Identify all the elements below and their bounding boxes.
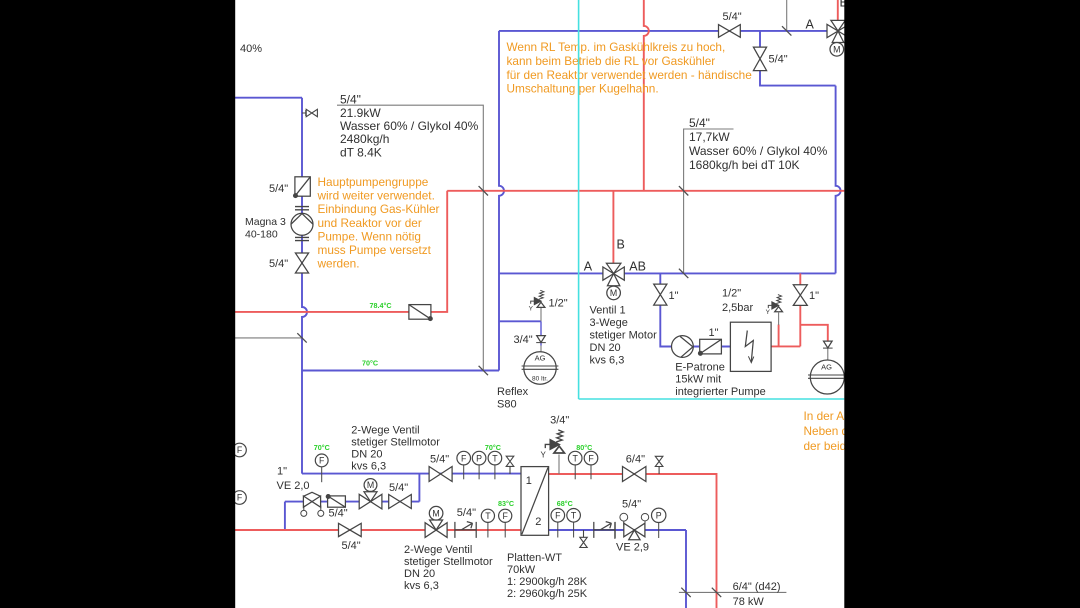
svg-text:AG: AG xyxy=(535,354,546,363)
valve 5/4 gate on top blue line x=729.4 xyxy=(719,25,741,38)
sensor T red supply x=575.2 xyxy=(574,464,576,479)
svg-text:2: 2960kg/h 25K: 2: 2960kg/h 25K xyxy=(507,588,588,600)
svg-text:F: F xyxy=(319,456,325,466)
wire blue supply top-left horizontal y=98 xyxy=(233,97,302,99)
cyan highlight box left edge xyxy=(578,0,580,399)
relief valve 3/4 above HX x=559 xyxy=(545,430,564,453)
svg-text:1: 2900kg/h 28K: 1: 2900kg/h 28K xyxy=(507,576,588,588)
svg-text:E-Patrone: E-Patrone xyxy=(675,361,725,373)
note orange Wenn RL Temp xyxy=(507,40,753,95)
valve 5/4 on blue return before HX x=440.6 xyxy=(429,467,452,482)
svg-text:F: F xyxy=(503,511,509,521)
motor cone mixing valve xyxy=(364,492,377,502)
wire blue left riser x=499 with bridge over red y=190.8 xyxy=(499,31,504,371)
wire blue 70C return y=370.5 xyxy=(302,370,499,372)
svg-text:5/4": 5/4" xyxy=(389,482,408,494)
svg-text:Platten-WT: Platten-WT xyxy=(507,552,562,564)
svg-text:2-Wege Ventil: 2-Wege Ventil xyxy=(351,424,419,436)
svg-text:Wasser 60% / Glykol 40%: Wasser 60% / Glykol 40% xyxy=(689,144,828,158)
balancing valve with drain cocks VE 2,0 row x=312.2 xyxy=(303,496,320,507)
relief drain stub gray x=778.8 xyxy=(778,312,780,325)
svg-text:5/4": 5/4" xyxy=(622,498,641,510)
wire blue drop x=419.4 to mixing row xyxy=(418,474,420,502)
sensor F red supply x=591 xyxy=(590,464,592,479)
pipe stub blue vessel stem x=541 xyxy=(540,321,542,345)
svg-text:Pumpe. Wenn nötig: Pumpe. Wenn nötig xyxy=(318,229,421,243)
valve 5/4 vertical below top junction x=760 xyxy=(753,47,766,71)
svg-text:68°C: 68°C xyxy=(557,499,573,508)
filter dot mixing row xyxy=(326,495,330,499)
break slash on leader end at blue 70C x=483.3 xyxy=(479,366,488,375)
svg-text:AG: AG xyxy=(821,363,832,372)
svg-text:M: M xyxy=(610,288,617,298)
svg-text:Reflex: Reflex xyxy=(497,386,529,398)
motor M circle mixing valve xyxy=(364,479,377,492)
vent cock on riser x=302 y=113 xyxy=(302,110,306,116)
wire red bottom supply y=530 xyxy=(233,529,521,531)
expansion vessel right membrane lines xyxy=(808,375,847,378)
motor cone bottom valve xyxy=(430,520,443,530)
filter diagonal xyxy=(295,177,310,196)
relief valve 1/2 at expansion vessel x=541 xyxy=(531,290,545,307)
cap valve 3/4 above expansion vessel xyxy=(536,336,546,343)
svg-text:80 ltr.: 80 ltr. xyxy=(532,376,548,383)
svg-text:A: A xyxy=(584,260,593,274)
wire blue main riser x=302 with bridge over red at y=312 xyxy=(302,98,307,474)
wire blue right riser x=835.6 with bridge over red y=190.8 xyxy=(836,86,841,274)
svg-text:40-180: 40-180 xyxy=(245,229,278,241)
svg-text:AB: AB xyxy=(629,260,646,274)
svg-text:stetiger Stellmotor: stetiger Stellmotor xyxy=(404,556,493,568)
svg-text:und Reaktor vor der: und Reaktor vor der xyxy=(318,216,422,230)
svg-text:2,5bar: 2,5bar xyxy=(722,302,754,314)
svg-text:VE 2,9: VE 2,9 xyxy=(616,542,649,554)
pump Magna 3 impeller triangle xyxy=(291,214,313,224)
svg-text:M: M xyxy=(367,480,374,490)
svg-text:5/4": 5/4" xyxy=(269,183,288,195)
wire red drop x=613.4 to 3-way valve B port xyxy=(612,191,614,263)
sensor letters xyxy=(237,45,841,521)
svg-text:1": 1" xyxy=(277,465,287,477)
2-way motor valve bottom red x=436.1 xyxy=(425,523,447,538)
svg-text:78.4°C: 78.4°C xyxy=(370,301,392,310)
note orange In der Anlage (clipped) xyxy=(804,409,874,453)
valve 1in vertical red branch x=800.3 xyxy=(793,285,807,306)
svg-text:5/4": 5/4" xyxy=(342,540,361,552)
flange pair below pump xyxy=(295,237,309,240)
leader line gray drop top x=786.7 xyxy=(786,0,788,31)
svg-text:DN 20: DN 20 xyxy=(404,568,435,580)
svg-text:S80: S80 xyxy=(497,399,517,411)
svg-text:Wenn RL Temp. im Gaskühlkreis: Wenn RL Temp. im Gaskühlkreis zu hoch, xyxy=(507,40,726,54)
svg-text:P: P xyxy=(656,511,662,521)
filter 1in before E-Patrone xyxy=(700,339,722,354)
heat exchanger diagonal xyxy=(522,468,548,535)
filter/dirt-trap square on riser x=302 xyxy=(295,177,310,196)
filter diagonal mixing row xyxy=(328,496,346,507)
svg-text:17,7kW: 17,7kW xyxy=(689,130,730,144)
E-Patrone heater box xyxy=(730,322,771,371)
sensor F after HX x=557.8 xyxy=(557,522,559,537)
wire red HX hot supply y=474 turning down x=716.5 xyxy=(549,474,717,608)
left letterbox bar xyxy=(0,0,235,608)
SENSORS xyxy=(233,443,666,538)
svg-text:Magna 3: Magna 3 xyxy=(245,216,286,228)
svg-text:1680kg/h bei dT 10K: 1680kg/h bei dT 10K xyxy=(689,158,800,172)
svg-text:1/2": 1/2" xyxy=(722,287,741,299)
svg-text:6/4" (d42): 6/4" (d42) xyxy=(733,581,781,593)
right letterbox bar xyxy=(844,0,1080,608)
wire red branch to AG vessel right xyxy=(800,325,828,341)
svg-text:3-Wege: 3-Wege xyxy=(590,317,628,329)
svg-text:DN 20: DN 20 xyxy=(590,342,621,354)
svg-text:dT 8.4K: dT 8.4K xyxy=(340,145,382,159)
drain cock above blue line x=510 xyxy=(506,456,514,474)
expansion vessel Reflex S80 AG xyxy=(524,352,556,384)
svg-text:70kW: 70kW xyxy=(507,564,536,576)
svg-text:B: B xyxy=(617,238,625,252)
filter diagonal red line xyxy=(409,305,431,320)
svg-text:Umschaltung per Kugelhahn.: Umschaltung per Kugelhahn. xyxy=(507,82,659,96)
sensor F cut at left edge upper xyxy=(233,443,247,457)
break slash bottom leader at red x=716.5 xyxy=(712,588,721,597)
E-Patrone heating element zigzag arrow xyxy=(745,331,753,362)
svg-text:stetiger Stellmotor: stetiger Stellmotor xyxy=(351,437,440,449)
valve 5/4 vertical below pump x=302 xyxy=(295,253,308,273)
wire red drop x=643.8 from top with bridge over blue y=30.9 xyxy=(644,0,649,191)
cyan highlight box bottom edge xyxy=(579,398,845,400)
wire blue branch x=760 down through valve to x=835.6 riser xyxy=(760,31,836,86)
sensor F on blue return left x=321.7 xyxy=(321,467,323,482)
wire red relief drain x=778.8 xyxy=(778,325,780,347)
pump E-Patrone impeller xyxy=(680,337,693,358)
svg-text:5/4": 5/4" xyxy=(689,116,710,130)
svg-text:70°C: 70°C xyxy=(314,443,330,452)
leader line 6/4 (d42) bottom xyxy=(679,591,787,593)
svg-text:78 kW: 78 kW xyxy=(733,596,765,608)
svg-text:1": 1" xyxy=(809,290,819,302)
svg-text:DN 20: DN 20 xyxy=(351,448,382,460)
flange tick left of VE 2,9 xyxy=(614,522,616,539)
sensor P after VE 2,9 x=658.7 xyxy=(658,522,660,538)
valve 5/4 on red line x=349.9 xyxy=(339,523,362,536)
break slash on leader at red crossing x=483.3 xyxy=(479,186,488,195)
svg-text:3/4": 3/4" xyxy=(550,414,569,426)
pipe stub expansion vessel left stem x=541 xyxy=(540,307,542,352)
valve 1in vertical blue branch x=660.3 xyxy=(654,284,667,305)
valve VE 2,9 with drain cocks x=634.4 xyxy=(624,523,645,537)
svg-text:T: T xyxy=(492,453,498,463)
svg-text:Hauptpumpengruppe: Hauptpumpengruppe xyxy=(318,175,429,189)
break slash bottom leader at blue x=686 xyxy=(681,588,690,597)
filter on mixing row xyxy=(328,496,346,507)
svg-text:3/4": 3/4" xyxy=(514,334,533,346)
svg-text:5/4": 5/4" xyxy=(769,54,788,66)
cap valve 3/4 at AG right x=827.8 xyxy=(823,341,833,348)
pump Magna 3 circle xyxy=(291,213,313,235)
svg-text:70°C: 70°C xyxy=(362,358,378,367)
svg-text:Y: Y xyxy=(541,450,547,459)
svg-text:Y: Y xyxy=(766,309,771,316)
svg-text:integrierter Pumpe: integrierter Pumpe xyxy=(675,386,766,398)
svg-text:kvs 6,3: kvs 6,3 xyxy=(590,355,625,367)
svg-text:A: A xyxy=(806,17,815,31)
wire blue return bottom horizontal y=473.6 to heat exchanger xyxy=(302,473,521,475)
break slash leader2 at red crossing x=683.6 xyxy=(679,186,688,195)
wire blue branch to 1in valve and E-Patrone pump xyxy=(660,273,730,346)
note orange Hauptpumpengruppe xyxy=(317,175,440,271)
expansion vessel membrane lines xyxy=(522,366,559,369)
svg-text:F: F xyxy=(237,493,243,503)
wire red 78.4C line y=312 rising to y=190.8 xyxy=(233,191,447,312)
wire red branch x=800.3 from AB line through 1in valve xyxy=(799,273,801,346)
motor M circle of top-right 3-way valve xyxy=(830,43,844,57)
break slash gray stub end x=302 y=337.9 xyxy=(297,333,306,342)
drain cocks under balancing valve xyxy=(304,506,321,511)
svg-text:5/4": 5/4" xyxy=(723,11,742,23)
leader line 17.7kW label to AB line xyxy=(684,129,734,273)
svg-text:80°C: 80°C xyxy=(576,443,592,452)
svg-text:1/2": 1/2" xyxy=(549,298,568,310)
pipe stub AG right stem x=827.8 xyxy=(827,348,829,361)
svg-text:F: F xyxy=(237,445,243,455)
3-way valve Ventil 1 x=613.6 xyxy=(603,263,624,286)
svg-text:kvs 6,3: kvs 6,3 xyxy=(351,461,386,473)
VE 2,9 bottom cone xyxy=(629,530,640,540)
svg-text:muss Pumpe versetzt: muss Pumpe versetzt xyxy=(318,243,432,257)
svg-text:kvs 6,3: kvs 6,3 xyxy=(404,580,439,592)
svg-text:T: T xyxy=(573,453,579,463)
svg-text:wird weiter verwendet.: wird weiter verwendet. xyxy=(317,189,435,203)
wire blue top line y=30.9 xyxy=(499,30,827,32)
svg-text:für den Reaktor verwendet werd: für den Reaktor verwendet werden - händi… xyxy=(507,68,753,82)
svg-text:2480kg/h: 2480kg/h xyxy=(340,132,389,146)
wire blue AB line y=273.4 xyxy=(499,272,836,274)
leader line 21.9kW label to blue 70C line xyxy=(337,105,483,370)
svg-text:stetiger Motor: stetiger Motor xyxy=(590,330,658,342)
heat exchanger Platten-WT box xyxy=(521,467,549,536)
svg-text:5/4": 5/4" xyxy=(457,507,476,519)
svg-text:F: F xyxy=(461,453,467,463)
wire red top of 3-way valve top-right x=837.8 xyxy=(837,0,839,21)
svg-text:T: T xyxy=(485,511,491,521)
svg-text:VE 2,0: VE 2,0 xyxy=(277,480,310,492)
VE 2,9 drain cock stems and circles xyxy=(624,521,645,526)
svg-text:Wasser 60% / Glykol 40%: Wasser 60% / Glykol 40% xyxy=(340,119,479,133)
svg-text:Ventil 1: Ventil 1 xyxy=(590,305,626,317)
svg-text:5/4": 5/4" xyxy=(269,258,288,270)
wire blue drop x=284.9 to red line xyxy=(284,502,286,530)
svg-text:40%: 40% xyxy=(240,43,262,55)
wire blue from HX bottom right to corner x=686 xyxy=(549,530,686,608)
wire red long header y=190.8 xyxy=(447,190,844,192)
break slash leader2 end at AB line x=683.6 xyxy=(679,269,688,278)
sensor T after HX x=573.6 xyxy=(573,522,575,537)
motor M circle bottom valve xyxy=(429,506,443,520)
sensor F top row x=463.7 xyxy=(463,464,465,479)
filter drain dot xyxy=(294,194,298,198)
svg-text:kann beim Betrieb die RL vor G: kann beim Betrieb die RL vor Gaskühler xyxy=(507,54,716,68)
wire red E-Patrone outlet y=346.4 xyxy=(771,345,800,347)
svg-text:M: M xyxy=(833,45,840,55)
sensor P top row x=479.1 xyxy=(478,464,480,479)
filter dot E-Patrone xyxy=(699,351,703,355)
check valve after HX bottom x=604 xyxy=(594,522,615,538)
svg-text:P: P xyxy=(476,453,482,463)
sensor F bottom row x=505.2 xyxy=(504,522,506,537)
valve 6/4 on red supply x=634.2 xyxy=(623,467,646,482)
svg-text:Einbindung Gas-Kühler: Einbindung Gas-Kühler xyxy=(318,202,440,216)
svg-text:1: 1 xyxy=(526,475,532,487)
vent cock bowtie small xyxy=(306,109,317,116)
svg-text:70°C: 70°C xyxy=(485,443,501,452)
svg-text:2: 2 xyxy=(535,516,541,528)
valve 5/4 mixing row x=400 xyxy=(389,495,412,509)
drain cock below blue after HX x=583.5 xyxy=(580,530,587,548)
sensor T top row x=494.9 xyxy=(494,464,496,479)
filter on red 78.4C line xyxy=(409,305,431,320)
sensor T bottom row x=487.9 xyxy=(487,522,489,537)
svg-text:2-Wege Ventil: 2-Wege Ventil xyxy=(404,544,472,556)
svg-text:21.9kW: 21.9kW xyxy=(340,106,381,120)
svg-text:5/4": 5/4" xyxy=(340,93,361,107)
drain cock above red line x=659.1 xyxy=(655,456,663,474)
break slash top gray drop x=786.7 xyxy=(782,26,791,35)
svg-text:Y: Y xyxy=(529,306,534,313)
svg-text:M: M xyxy=(432,508,439,518)
2-way motor valve on mixing row x=370.5 xyxy=(359,494,382,509)
svg-text:T: T xyxy=(571,511,577,521)
leader line gray stub left y=337.9 xyxy=(233,337,302,339)
relief valve 1/2 2,5bar x=778.8 xyxy=(768,295,782,312)
wire blue expansion vessel branch y=321.3 xyxy=(499,320,541,322)
svg-text:F: F xyxy=(588,453,594,463)
flange pair above pump xyxy=(295,207,309,210)
expansion vessel AG right xyxy=(810,360,844,394)
sensor F cut at left edge lower xyxy=(233,491,247,505)
svg-text:83°C: 83°C xyxy=(498,499,514,508)
pump E-Patrone circle xyxy=(672,336,694,358)
svg-text:F: F xyxy=(555,511,561,521)
check valve after motor valve x=465 xyxy=(455,522,476,538)
svg-text:werden.: werden. xyxy=(317,257,360,271)
svg-text:15kW mit: 15kW mit xyxy=(675,374,721,386)
motor M circle Ventil 1 xyxy=(607,286,621,300)
svg-text:5/4": 5/4" xyxy=(329,508,348,520)
valve 3-way motor top-right x=838 (clipped) xyxy=(827,20,849,42)
svg-text:5/4": 5/4" xyxy=(430,454,449,466)
filter drain dot red line xyxy=(428,317,432,321)
filter diagonal E-Patrone xyxy=(700,339,722,354)
svg-text:1": 1" xyxy=(669,290,679,302)
wire blue mixing row y=501.6 xyxy=(285,501,420,503)
svg-text:1": 1" xyxy=(709,327,719,339)
PIPES xyxy=(233,31,841,608)
svg-text:6/4": 6/4" xyxy=(626,454,645,466)
pipe stub relief above HX x=559 xyxy=(558,455,560,475)
